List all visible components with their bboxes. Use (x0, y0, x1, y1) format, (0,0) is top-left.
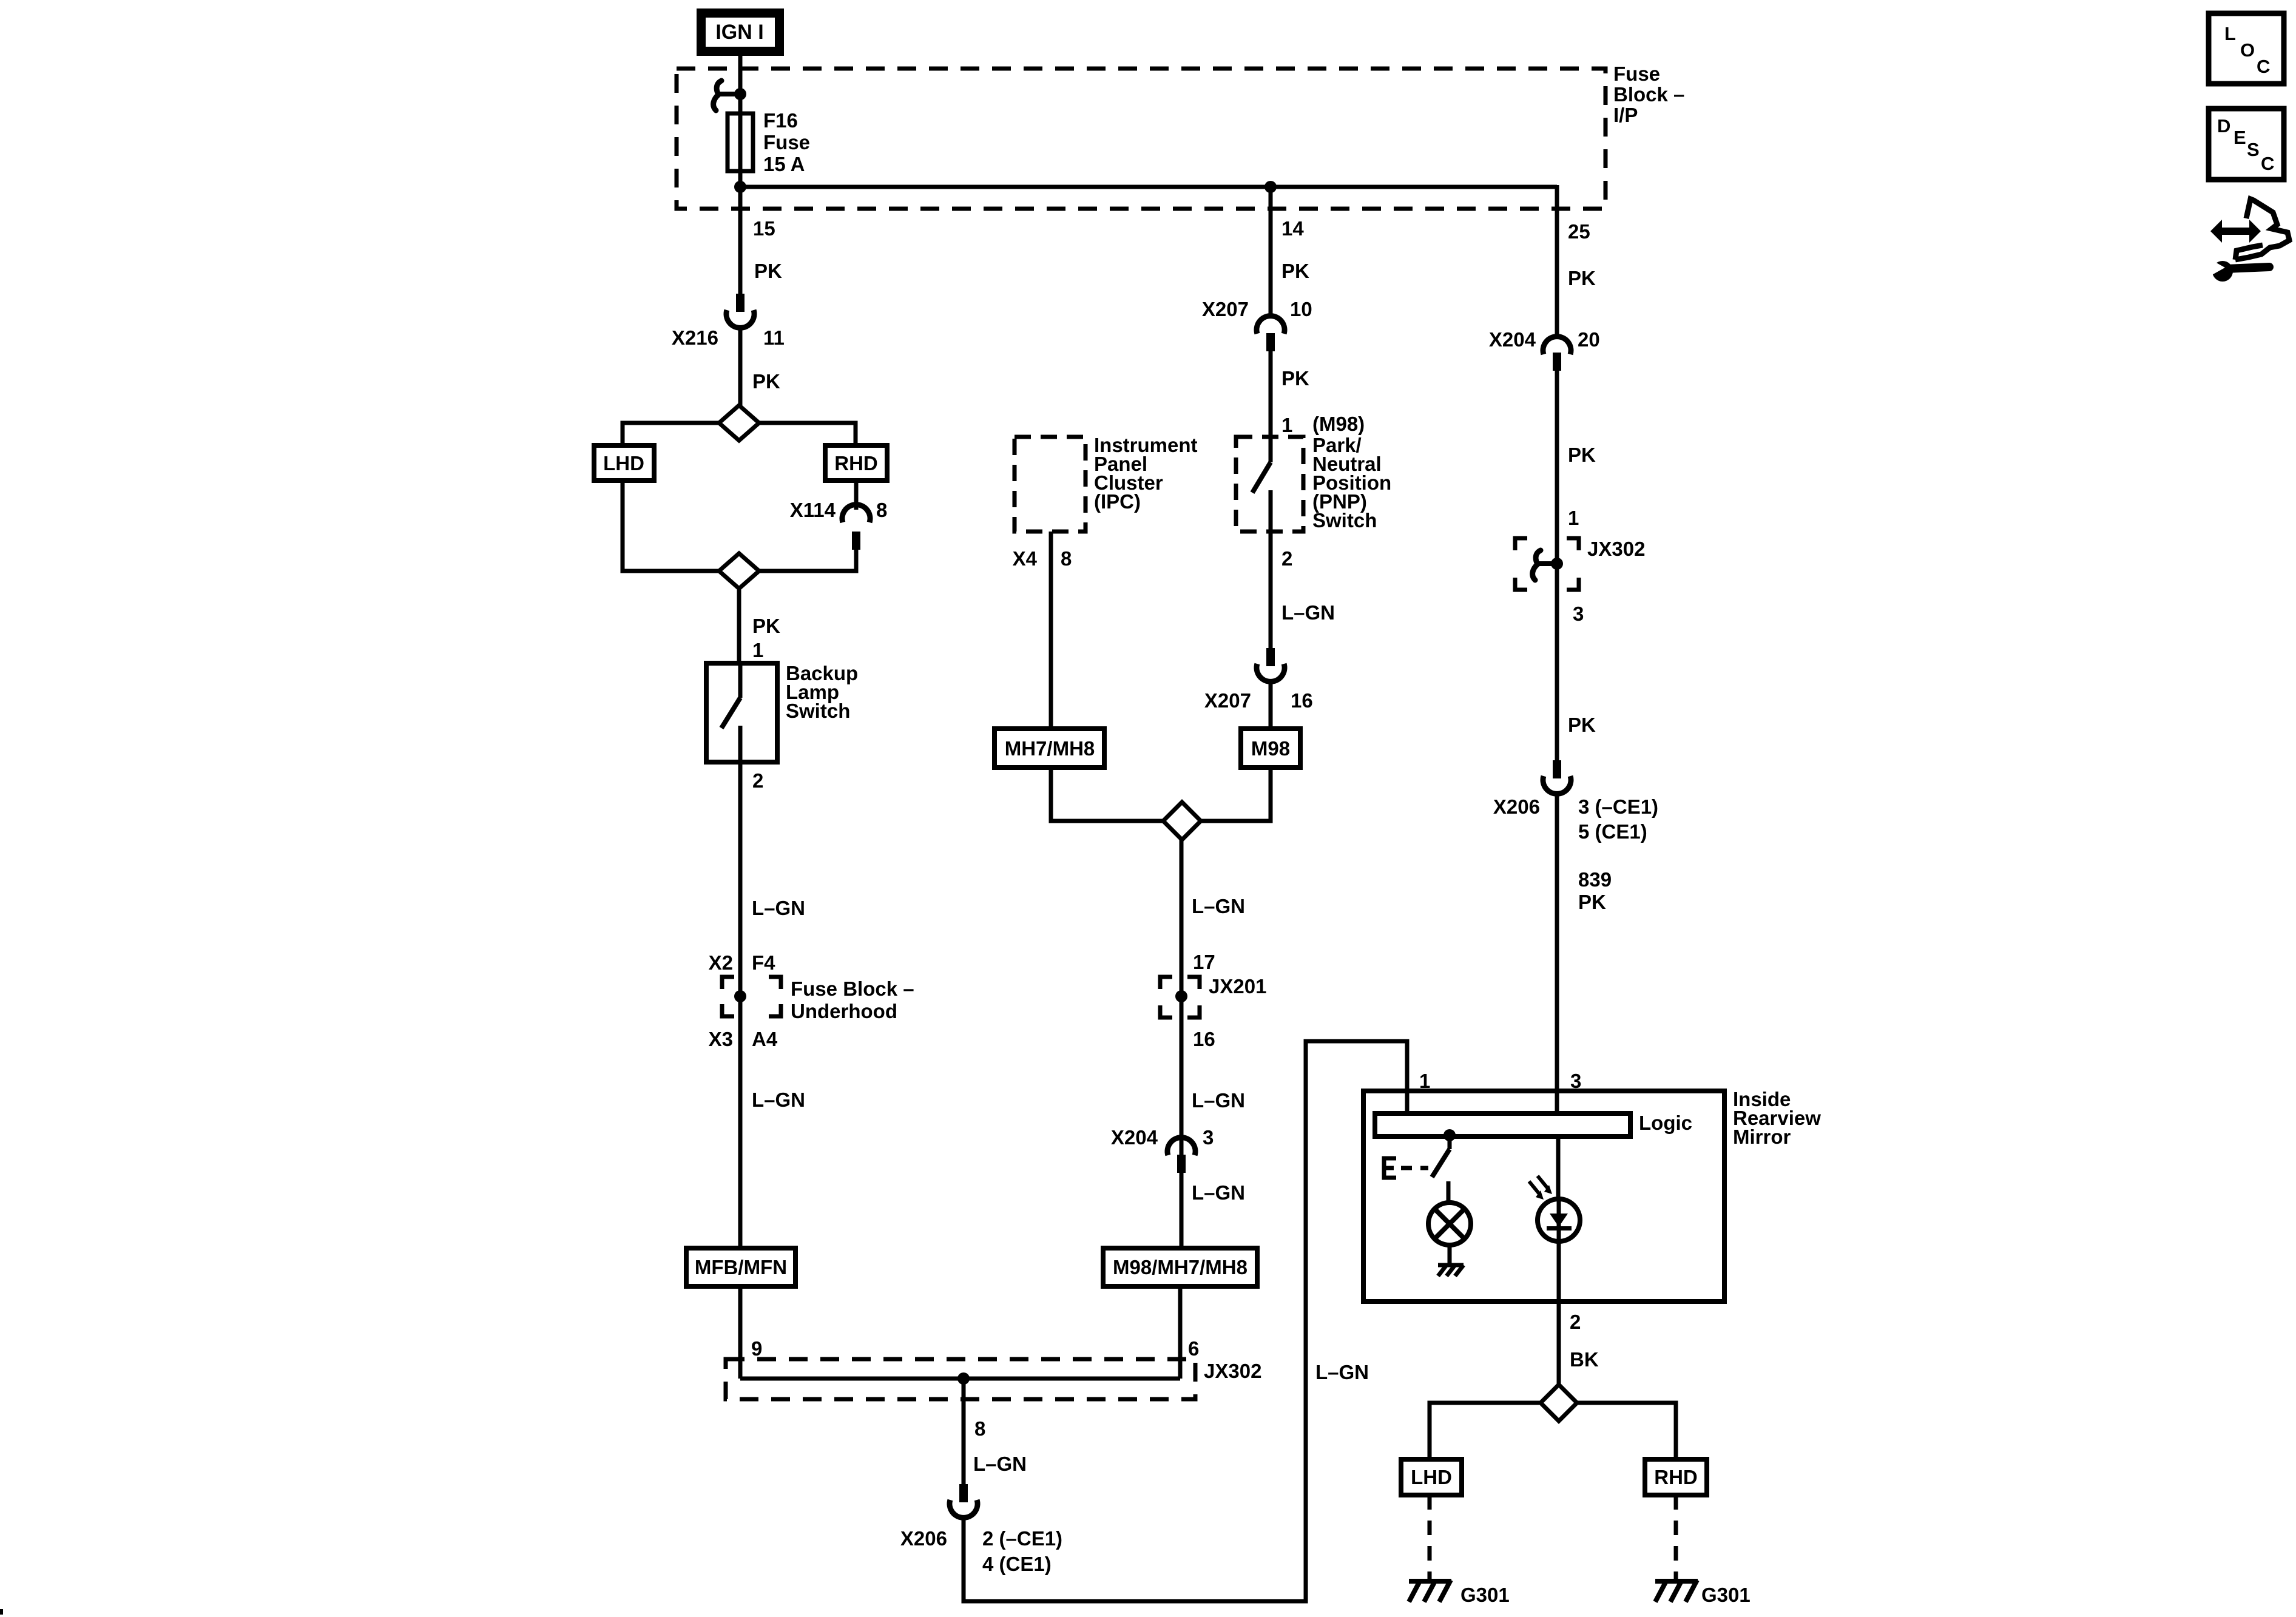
wire diamond to LHD ground (1430, 1403, 1541, 1459)
svg-text:C: C (2257, 56, 2270, 77)
svg-text:E: E (2234, 127, 2246, 148)
svg-text:C: C (2261, 153, 2274, 174)
wire pin 25 down to X204 (1555, 185, 1559, 337)
svg-text:16: 16 (1193, 1028, 1215, 1050)
svg-text:Mirror: Mirror (1733, 1126, 1791, 1148)
connector X207 pin 16 (1257, 648, 1285, 681)
inside rearview mirror box (1363, 1091, 1724, 1301)
junction rail to middle branch (1264, 181, 1277, 193)
svg-text:1: 1 (752, 639, 763, 661)
svg-text:839: 839 (1578, 868, 1612, 891)
wire X206 to mirror pin 3 (1555, 792, 1559, 1116)
JX302 hook (1533, 550, 1555, 580)
splice diamond lower (719, 553, 759, 589)
label Instrument Panel Cluster (IPC) (1094, 434, 1198, 513)
svg-text:X3: X3 (709, 1028, 733, 1050)
wire IPC to MH7/MH8 (1049, 532, 1053, 729)
wire JX302 to X206 (1555, 564, 1559, 760)
option box LHD ground (1401, 1459, 1462, 1495)
svg-text:L–GN: L–GN (1192, 1089, 1245, 1112)
photocell diode (1538, 1199, 1580, 1241)
svg-text:Logic: Logic (1639, 1112, 1692, 1134)
ground G301 left (1409, 1580, 1451, 1602)
svg-text:L–GN: L–GN (752, 1089, 805, 1111)
svg-text:X204: X204 (1111, 1126, 1158, 1149)
svg-text:(M98): (M98) (1312, 413, 1365, 435)
svg-text:Fuse: Fuse (763, 131, 810, 154)
svg-text:PK: PK (1578, 891, 1606, 913)
svg-text:I/P: I/P (1613, 104, 1638, 126)
svg-text:4 (CE1): 4 (CE1) (982, 1553, 1052, 1575)
svg-text:JX302: JX302 (1204, 1360, 1261, 1382)
svg-text:X206: X206 (900, 1527, 947, 1550)
connector X204 pin 3 (1167, 1138, 1195, 1173)
svg-text:L–GN: L–GN (1192, 895, 1245, 917)
svg-text:Switch: Switch (1312, 509, 1377, 532)
svg-text:PK: PK (752, 615, 780, 637)
label Fuse Block - Underhood (791, 977, 914, 1022)
svg-text:X206: X206 (1493, 795, 1540, 818)
svg-text:X204: X204 (1489, 328, 1536, 351)
internal ground (1438, 1265, 1464, 1276)
svg-text:D: D (2217, 115, 2230, 137)
svg-text:1: 1 (1568, 507, 1579, 529)
switch actuator E with dashed link (1384, 1158, 1428, 1178)
wire X207 to M98 box (1269, 680, 1273, 729)
wire diamond to JX201 (1180, 840, 1184, 1248)
harness box M98/MH7/MH8 (1103, 1248, 1257, 1286)
bus rail wire (740, 185, 1557, 189)
svg-text:LHD: LHD (603, 452, 644, 474)
photocell arrows (1529, 1176, 1552, 1200)
wire MFB/MFN to M98/MH7/MH8 bus (740, 1377, 1180, 1381)
svg-text:RHD: RHD (834, 452, 878, 474)
connector X216 pin 11 (726, 294, 754, 328)
wire X206 to mirror pin 1 (964, 1041, 1407, 1601)
svg-text:F4: F4 (752, 951, 775, 974)
wire hook to fuse F16 (738, 94, 743, 187)
svg-text:MFB/MFN: MFB/MFN (695, 1256, 787, 1278)
svg-text:M98/MH7/MH8: M98/MH7/MH8 (1113, 1256, 1248, 1278)
svg-text:8: 8 (1061, 547, 1072, 570)
option box RHD ground (1645, 1459, 1707, 1495)
svg-text:A4: A4 (752, 1028, 778, 1050)
wire diamond to RHD (759, 423, 856, 445)
svg-text:MH7/MH8: MH7/MH8 (1005, 737, 1095, 760)
svg-text:RHD: RHD (1654, 1466, 1698, 1488)
svg-text:L–GN: L–GN (1281, 601, 1335, 624)
wire photocell to pin 2 (1557, 1241, 1561, 1385)
svg-text:Fuse Block –: Fuse Block – (791, 977, 914, 1000)
wire MH7/MH8 to diamond (1051, 768, 1163, 821)
svg-text:S: S (2247, 139, 2260, 160)
adjust icon wrench (2209, 258, 2269, 282)
svg-text:25: 25 (1568, 220, 1590, 243)
svg-text:LHD: LHD (1411, 1466, 1452, 1488)
wire RHD to X114 (854, 481, 859, 510)
fuse block underhood pass-through box (722, 977, 781, 1016)
label Fuse Block - I/P (1613, 62, 1684, 126)
wire diamond to switch (737, 589, 741, 663)
svg-text:X216: X216 (672, 326, 718, 349)
svg-text:PK: PK (1281, 260, 1309, 282)
wire pin 15 down to X216 (738, 187, 743, 294)
svg-text:PK: PK (752, 370, 780, 393)
logic module bar (1375, 1113, 1630, 1136)
svg-text:M98: M98 (1251, 737, 1290, 760)
harness box M98 (1241, 729, 1300, 768)
junction dot JX302 (1551, 558, 1563, 570)
harness box MH7/MH8 (994, 729, 1104, 768)
mirror internal switch (1432, 1135, 1450, 1203)
svg-text:14: 14 (1281, 217, 1304, 240)
svg-text:Underhood: Underhood (791, 1000, 897, 1022)
svg-text:2: 2 (1281, 547, 1292, 570)
svg-text:X207: X207 (1204, 689, 1251, 712)
svg-text:X4: X4 (1013, 547, 1038, 570)
label Backup Lamp Switch (786, 662, 858, 722)
svg-text:3: 3 (1573, 603, 1584, 625)
wire X114 to diamond (759, 550, 856, 571)
wire diamond to RHD ground (1577, 1403, 1676, 1459)
power feed IGN I (701, 13, 780, 52)
dashed wire RHD to G301 (1674, 1495, 1678, 1580)
svg-text:BK: BK (1570, 1348, 1599, 1371)
wire X204 to JX302 (1555, 371, 1559, 564)
svg-text:PK: PK (1568, 714, 1596, 736)
page artifact dot bottom-left (0, 1609, 3, 1615)
fuse block I/P dashed box (677, 69, 1606, 209)
svg-text:L–GN: L–GN (1192, 1181, 1245, 1204)
junction JX302 pass-through box (1515, 538, 1579, 590)
svg-text:8: 8 (876, 499, 887, 521)
svg-text:17: 17 (1193, 951, 1215, 973)
svg-text:G301: G301 (1701, 1584, 1751, 1606)
label Inside Rearview Mirror (1733, 1088, 1821, 1148)
svg-text:PK: PK (754, 260, 782, 282)
svg-text:(IPC): (IPC) (1094, 490, 1141, 513)
wire JX302 to X206 (962, 1379, 966, 1484)
svg-text:Fuse: Fuse (1613, 62, 1660, 85)
junction JX302 dashed box bottom (726, 1359, 1195, 1399)
ignition switch hook (714, 81, 739, 110)
svg-text:PK: PK (1281, 367, 1309, 390)
svg-text:G301: G301 (1460, 1584, 1510, 1606)
svg-text:3: 3 (1203, 1126, 1214, 1149)
splice diamond ground (1541, 1385, 1577, 1421)
instrument panel cluster dashed box (1015, 437, 1086, 532)
svg-text:X207: X207 (1202, 298, 1249, 320)
svg-text:JX201: JX201 (1209, 975, 1266, 998)
adjust icon double arrow (2210, 220, 2261, 243)
wire IGN I to fuse block (738, 56, 743, 94)
svg-text:L–GN: L–GN (1315, 1361, 1369, 1383)
wire pin 3 through logic to photocell (1556, 1136, 1561, 1199)
svg-text:15 A: 15 A (763, 153, 805, 175)
adjust icon mirror outline (2235, 199, 2289, 260)
junction dot JX201 (1175, 990, 1187, 1002)
wire lamp to ground (1448, 1245, 1452, 1264)
splice diamond upper (719, 405, 759, 441)
junction dot on logic bar (1443, 1129, 1456, 1141)
connector X206 pins 2/4 (950, 1484, 977, 1517)
junction JX201 pass-through box (1160, 977, 1200, 1018)
svg-text:11: 11 (763, 326, 785, 349)
svg-text:10: 10 (1290, 298, 1312, 320)
junction below fuse (734, 181, 746, 193)
connector X114 pin 8 (842, 505, 870, 550)
svg-text:O: O (2240, 39, 2255, 61)
svg-text:PK: PK (1568, 267, 1596, 289)
connector X207 pin 10 (1257, 316, 1285, 351)
LOC legend box (2209, 13, 2284, 84)
harness box MFB/MFN (686, 1248, 795, 1286)
svg-text:X2: X2 (709, 951, 733, 974)
park/neutral position switch dashed box (1236, 437, 1303, 532)
wire LHD down (623, 481, 719, 571)
junction at ignition feed (734, 88, 746, 100)
wire MFB/MFN to JX302 (738, 1286, 743, 1379)
svg-text:F16: F16 (763, 109, 798, 132)
svg-text:16: 16 (1291, 689, 1313, 712)
dashed wire LHD to G301 (1428, 1495, 1432, 1580)
PNP switch contacts (1252, 437, 1271, 532)
wire X216 to diamond (738, 326, 743, 405)
wire M98 to diamond (1201, 768, 1271, 821)
wire pin 14 down to X207 (1269, 187, 1273, 318)
mirror lamp (1428, 1203, 1471, 1245)
ground G301 right (1655, 1580, 1698, 1602)
svg-text:Block –: Block – (1613, 83, 1684, 106)
svg-text:3 (–CE1): 3 (–CE1) (1578, 795, 1658, 818)
svg-text:Switch: Switch (786, 700, 850, 722)
wire switch to underhood fuse block (738, 762, 743, 1248)
svg-text:8: 8 (974, 1417, 985, 1440)
svg-text:PK: PK (1568, 444, 1596, 466)
label F16 Fuse 15 A (763, 109, 810, 175)
fuse F16 15 A (728, 113, 753, 171)
backup lamp switch (706, 663, 777, 762)
svg-text:JX302: JX302 (1587, 538, 1645, 560)
splice diamond middle (1163, 802, 1201, 840)
wire M98/MH7/MH8 to JX302 (1178, 1286, 1183, 1379)
option box RHD (825, 445, 887, 481)
svg-text:1: 1 (1281, 414, 1292, 436)
junction in underhood fuse block (734, 990, 746, 1002)
svg-text:X114: X114 (790, 499, 836, 521)
wire PNP to X207 pin 16 (1269, 532, 1273, 648)
junction dot JX302 bottom (957, 1372, 970, 1385)
svg-text:L–GN: L–GN (752, 897, 805, 919)
connector X204 pin 20 (1543, 337, 1571, 371)
wire X207 to PNP switch (1269, 351, 1273, 437)
svg-text:2: 2 (1570, 1311, 1581, 1333)
svg-text:L: L (2224, 23, 2236, 44)
svg-text:15: 15 (753, 217, 775, 240)
svg-text:6: 6 (1188, 1337, 1199, 1360)
svg-text:2: 2 (752, 769, 763, 792)
svg-text:2 (–CE1): 2 (–CE1) (982, 1527, 1062, 1550)
svg-text:L–GN: L–GN (973, 1453, 1027, 1475)
option box LHD (594, 445, 654, 481)
label Park/Neutral Position (PNP) Switch (1312, 434, 1391, 532)
svg-text:IGN I: IGN I (715, 21, 763, 44)
svg-text:9: 9 (751, 1337, 762, 1360)
connector X206 pins 3/5 (1543, 760, 1571, 794)
DESC legend box (2209, 109, 2284, 180)
wire diamond to LHD (623, 423, 719, 445)
svg-text:5 (CE1): 5 (CE1) (1578, 820, 1647, 843)
svg-text:20: 20 (1578, 328, 1600, 351)
